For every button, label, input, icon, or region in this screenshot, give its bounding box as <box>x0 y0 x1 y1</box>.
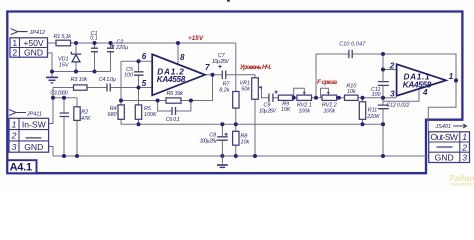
svg-text:GND: GND <box>435 153 454 163</box>
svg-text:C4 1,0µ: C4 1,0µ <box>99 77 116 83</box>
svg-text:6: 6 <box>142 52 147 61</box>
svg-text:KA4558: KA4558 <box>157 75 186 84</box>
svg-text:JP412: JP412 <box>29 30 46 36</box>
svg-text:50k: 50k <box>241 87 250 93</box>
svg-text:2: 2 <box>389 62 395 71</box>
svg-text:4: 4 <box>422 88 428 97</box>
svg-text:2: 2 <box>11 131 17 141</box>
svg-text:100K: 100K <box>144 112 157 118</box>
svg-text:1: 1 <box>12 38 17 48</box>
svg-text:47K: 47K <box>81 116 91 122</box>
svg-text:100: 100 <box>124 72 133 78</box>
svg-text:8,2k: 8,2k <box>219 88 229 94</box>
svg-text:GND: GND <box>24 48 43 58</box>
svg-text:Уровень НЧ.: Уровень НЧ. <box>240 64 272 71</box>
svg-text:10k: 10k <box>347 89 356 95</box>
svg-text:100k: 100k <box>323 108 335 114</box>
svg-text:3: 3 <box>462 153 467 163</box>
svg-text:10k: 10k <box>241 139 250 145</box>
svg-text:3: 3 <box>390 89 395 98</box>
svg-text:1: 1 <box>462 132 467 142</box>
svg-text:100k: 100k <box>298 108 310 114</box>
svg-text:Out-SW: Out-SW <box>430 132 458 142</box>
svg-text:R11: R11 <box>368 108 378 114</box>
svg-text:www.radiokot.ru: www.radiokot.ru <box>450 181 474 186</box>
svg-text:2: 2 <box>12 47 17 57</box>
svg-text:7: 7 <box>205 63 210 72</box>
svg-text:8: 8 <box>180 53 185 62</box>
svg-text:0,1: 0,1 <box>90 36 98 42</box>
svg-text:15V: 15V <box>59 62 70 68</box>
svg-text:10µ 25V: 10µ 25V <box>259 109 277 115</box>
svg-text:R6 39k: R6 39k <box>167 91 184 97</box>
svg-text:3: 3 <box>12 142 17 152</box>
svg-text:R1 5,1k: R1 5,1k <box>54 34 72 40</box>
svg-text:100µ 25v: 100µ 25v <box>200 139 218 145</box>
svg-text:10µ 25V: 10µ 25V <box>212 59 230 65</box>
svg-text:R2: R2 <box>81 110 88 116</box>
svg-text:C12 0,022: C12 0,022 <box>387 103 410 109</box>
svg-text:R3 10k: R3 10k <box>71 77 88 83</box>
svg-text:1: 1 <box>449 72 454 81</box>
svg-text:2: 2 <box>461 142 467 152</box>
svg-text:10K: 10K <box>281 107 291 113</box>
svg-text:C6 0,1: C6 0,1 <box>166 117 180 123</box>
svg-text:C3 1000: C3 1000 <box>50 90 68 96</box>
svg-text:JP411: JP411 <box>26 111 42 117</box>
svg-text:100: 100 <box>372 92 381 98</box>
svg-text:C9: C9 <box>264 102 271 108</box>
svg-text:220µ: 220µ <box>115 45 128 51</box>
svg-text:+50V: +50V <box>23 38 44 48</box>
svg-text:220K: 220K <box>366 114 380 120</box>
svg-text:C10 0,047: C10 0,047 <box>339 41 366 47</box>
svg-text:JS401: JS401 <box>435 124 452 130</box>
svg-text:F среза: F среза <box>317 79 337 86</box>
svg-text:5: 5 <box>142 79 147 88</box>
svg-text:680: 680 <box>108 112 117 118</box>
svg-text:In-SW: In-SW <box>22 120 47 130</box>
svg-text:GND: GND <box>24 142 43 152</box>
svg-text:VR1: VR1 <box>240 81 251 87</box>
svg-text:+15V: +15V <box>188 35 204 42</box>
svg-text:A4.1: A4.1 <box>10 162 32 174</box>
svg-text:1: 1 <box>12 119 17 129</box>
